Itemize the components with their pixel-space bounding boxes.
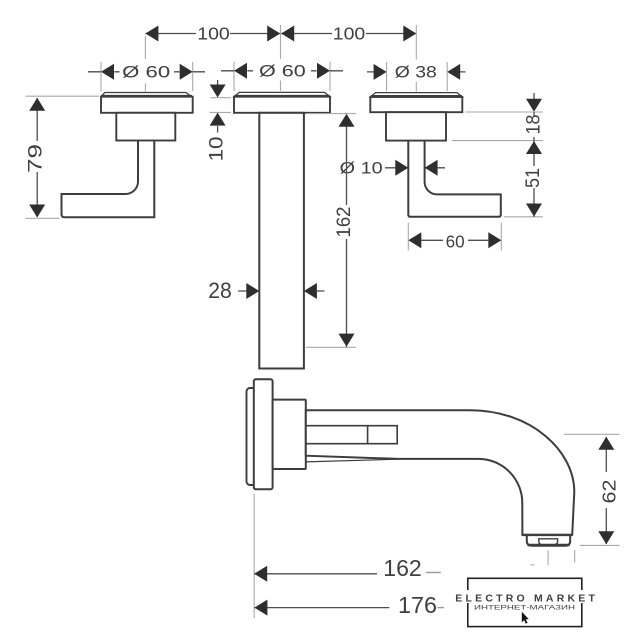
svg-text:162: 162 — [334, 207, 355, 238]
svg-text:79: 79 — [25, 144, 46, 173]
svg-text:Ø 60: Ø 60 — [122, 64, 170, 82]
svg-text:ELECTRO MARKET: ELECTRO MARKET — [455, 592, 598, 604]
svg-text:176: 176 — [398, 592, 437, 618]
svg-text:28: 28 — [208, 278, 232, 303]
svg-text:60: 60 — [446, 232, 465, 252]
svg-text:62: 62 — [599, 480, 619, 504]
svg-text:51: 51 — [523, 168, 544, 188]
svg-text:Ø 60: Ø 60 — [259, 63, 306, 81]
svg-text:18: 18 — [523, 115, 544, 135]
svg-text:Ø 38: Ø 38 — [395, 64, 437, 82]
svg-text:10: 10 — [206, 137, 227, 162]
svg-text:162: 162 — [383, 555, 422, 581]
svg-text:100: 100 — [333, 24, 366, 44]
svg-text:100: 100 — [197, 24, 230, 44]
svg-text:ИНТЕРНЕТ-МАГАЗИН: ИНТЕРНЕТ-МАГАЗИН — [474, 606, 575, 612]
